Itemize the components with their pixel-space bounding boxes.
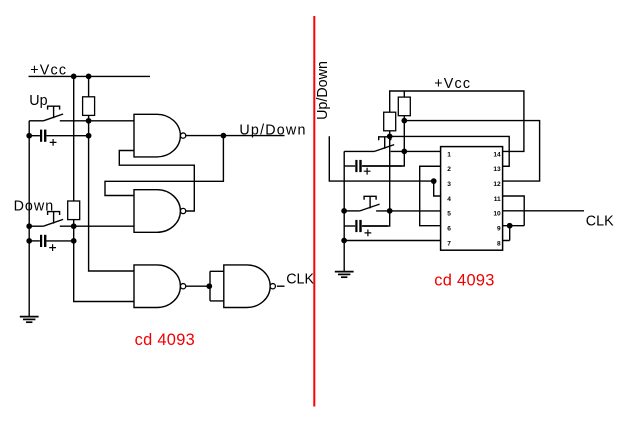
svg-text:+Vcc: +Vcc (434, 76, 471, 92)
wire U1A out to U1B input A (105, 136, 223, 196)
junction Down-node/rail R3 (387, 208, 393, 214)
ground (left circuit) (20, 317, 39, 323)
wire Up/Down input to pin3 (329, 136, 433, 181)
junction C2 left/ground rail (26, 238, 32, 244)
svg-text:Up/Down: Up/Down (315, 61, 331, 120)
wire rail R4 node down to C3 (363, 116, 405, 166)
svg-text:7: 7 (447, 240, 451, 247)
wire CLK output (left) (277, 285, 285, 287)
svg-text:3: 3 (447, 181, 451, 188)
pushbutton S3 (Up, right) (375, 137, 395, 152)
wire rail R3 node down to C4 (363, 131, 390, 226)
junction Up-node/rail-R (86, 118, 92, 124)
svg-text:14: 14 (493, 151, 501, 158)
junction R3-node/pin13 wire (387, 134, 393, 140)
capacitor C3 (right) (344, 160, 402, 175)
junction Vcc/rail-R (86, 74, 92, 80)
wire ground to pin 7 (344, 240, 441, 242)
svg-text:6: 6 (447, 226, 451, 233)
pushbutton S1 (Up) (43, 106, 63, 121)
svg-text:cd 4093: cd 4093 (434, 271, 494, 289)
wire pin8 to pin9 tie (503, 226, 510, 241)
wire +Vcc to R4 top (403, 91, 405, 97)
wire ground rail (right circuit) (343, 151, 345, 271)
wire rail M lower (R2 to NAND3 input B) (74, 220, 134, 302)
svg-text:8: 8 (497, 240, 501, 247)
wire Up switch left lead (29, 120, 43, 122)
svg-text:9: 9 (497, 226, 501, 233)
junction R4-node/pin12 wire (401, 118, 407, 124)
wire Down node to NAND2 input B (60, 225, 134, 227)
resistor R4 (Up pull-up, right) (398, 97, 410, 116)
wire +Vcc to pin 14 (390, 91, 524, 151)
junction Down-node/rail-M (71, 223, 77, 229)
wire CLK net (right) (503, 210, 584, 212)
svg-text:CLK: CLK (286, 271, 314, 287)
junction Up/Down node (221, 133, 227, 139)
wire +Vcc rail top (left) (29, 75, 151, 77)
capacitor C1 (29, 130, 88, 146)
wire U1D input tie (210, 271, 224, 301)
wire Down node to pin 13 (390, 136, 510, 166)
junction C2 right/rail-M (71, 238, 77, 244)
NAND gate U1B (SR latch) (134, 190, 186, 233)
junction Vcc/rail-M (71, 74, 77, 80)
wire pin 9 stub (503, 225, 525, 227)
NAND gate U1D (CLK buffer) (224, 265, 276, 308)
pushbutton S2 (Down) (43, 212, 63, 227)
svg-text:13: 13 (493, 166, 501, 173)
wire pin3 to pin4 tie (434, 181, 441, 196)
pushbutton S4 (Down, right) (360, 196, 380, 211)
junction ground rail/pin7 wire (341, 238, 347, 244)
junction pin9/pin8 tie (507, 223, 513, 229)
wire U1B out to U1A input B (119, 151, 194, 212)
svg-text:12: 12 (493, 181, 501, 188)
NAND gate U1A (SR latch) (134, 114, 186, 157)
wire Down switch left lead (right) (344, 210, 360, 212)
junction Up-node/pin1 wire (401, 149, 407, 155)
wire rail R upper (Vcc to R1) (88, 76, 90, 96)
junction U1D tied inputs (206, 283, 212, 289)
junction pin3/pin4 tie (431, 178, 437, 184)
junction Down-switch/ground rail (right) (341, 208, 347, 214)
svg-text:4: 4 (447, 196, 451, 203)
wire pin2 to pin6 tie (420, 166, 441, 225)
svg-text:Up: Up (29, 93, 47, 109)
svg-text:2: 2 (447, 166, 451, 173)
wire Down switch left lead (29, 225, 43, 227)
wire rail R lower (R1 to NAND3 input A) (89, 115, 134, 271)
NAND gate U1C (134, 265, 186, 308)
svg-text:CLK: CLK (586, 213, 614, 229)
wire U1C output (185, 285, 210, 287)
svg-text:11: 11 (494, 196, 501, 203)
resistor R2 (Down pull-up) (68, 201, 80, 220)
svg-text:cd 4093: cd 4093 (135, 331, 195, 349)
svg-text:1: 1 (447, 151, 451, 158)
svg-text:5: 5 (447, 211, 451, 218)
wire Up switch left lead (right) (344, 150, 374, 152)
wire Up node to NAND1 input A (60, 120, 134, 122)
capacitor C2 (29, 235, 73, 251)
wire U1A output / Up-Down net (185, 135, 284, 137)
red divider line (313, 16, 315, 407)
junction C1 right/rail-R (86, 133, 92, 139)
svg-text:10: 10 (493, 211, 501, 218)
resistor R1 (Up pull-up) (83, 97, 95, 116)
wire Up node to pin 1 (391, 150, 441, 152)
wire Up node to pin 12 (404, 121, 539, 182)
junction Down-switch/ground rail (26, 223, 32, 229)
wire rail M upper (Vcc to R2) (73, 76, 75, 201)
wire pin11 to pin9/CLK tie (503, 196, 525, 226)
resistor R3 (Down pull-up, right) (384, 112, 396, 131)
wire ground rail (left circuit) (28, 121, 30, 317)
wire Down node to pin 5 (376, 210, 441, 212)
junction C1 left/ground rail (26, 133, 32, 139)
IC U2 CD4093 body (441, 147, 503, 251)
capacitor C4 (right) (344, 220, 388, 236)
svg-text:Up/Down: Up/Down (239, 122, 306, 138)
ground (right circuit) (335, 272, 354, 278)
